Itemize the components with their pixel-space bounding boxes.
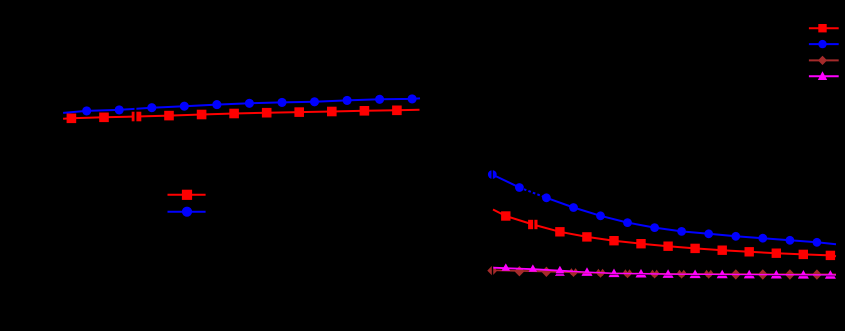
right chart: magenta lower-triangle skirts bbox=[555, 273, 836, 278]
right chart: blue line solid part 2 bbox=[546, 198, 836, 244]
left chart: red square series line bbox=[63, 110, 419, 119]
right chart: magenta triangle markers bbox=[502, 263, 834, 275]
left chart: blue circle markers bbox=[82, 94, 417, 115]
right chart: brown diamond markers bbox=[487, 265, 822, 279]
right chart: magenta line right part bbox=[573, 271, 836, 275]
left chart: black slit through 3rd red marker and blue line bbox=[135, 103, 137, 124]
right chart: red line bbox=[493, 210, 836, 257]
right chart: blue dashed segment bbox=[519, 188, 546, 198]
right chart: black slit through first brown diamond bbox=[492, 264, 493, 276]
left chart: blue circle series line bbox=[63, 98, 420, 113]
right chart: red square markers bbox=[501, 211, 835, 260]
right chart: brown line bbox=[494, 270, 836, 274]
right chart: black slit through first blue circle bbox=[492, 169, 493, 180]
right legend: brown diamond entry bbox=[809, 56, 839, 65]
right chart: black slit through second red square bbox=[533, 219, 534, 230]
left legend: red square entry bbox=[168, 190, 206, 200]
right legend: magenta triangle entry bbox=[809, 71, 839, 80]
left legend: blue circle entry bbox=[168, 207, 206, 217]
right legend: blue circle entry bbox=[809, 40, 839, 48]
right legend: red square entry bbox=[809, 24, 839, 32]
left chart: red square markers bbox=[67, 106, 402, 124]
right chart: magenta line left part bbox=[493, 268, 573, 272]
right chart: blue line solid part 1 bbox=[492, 175, 519, 188]
right chart: blue circle markers bbox=[488, 170, 821, 247]
